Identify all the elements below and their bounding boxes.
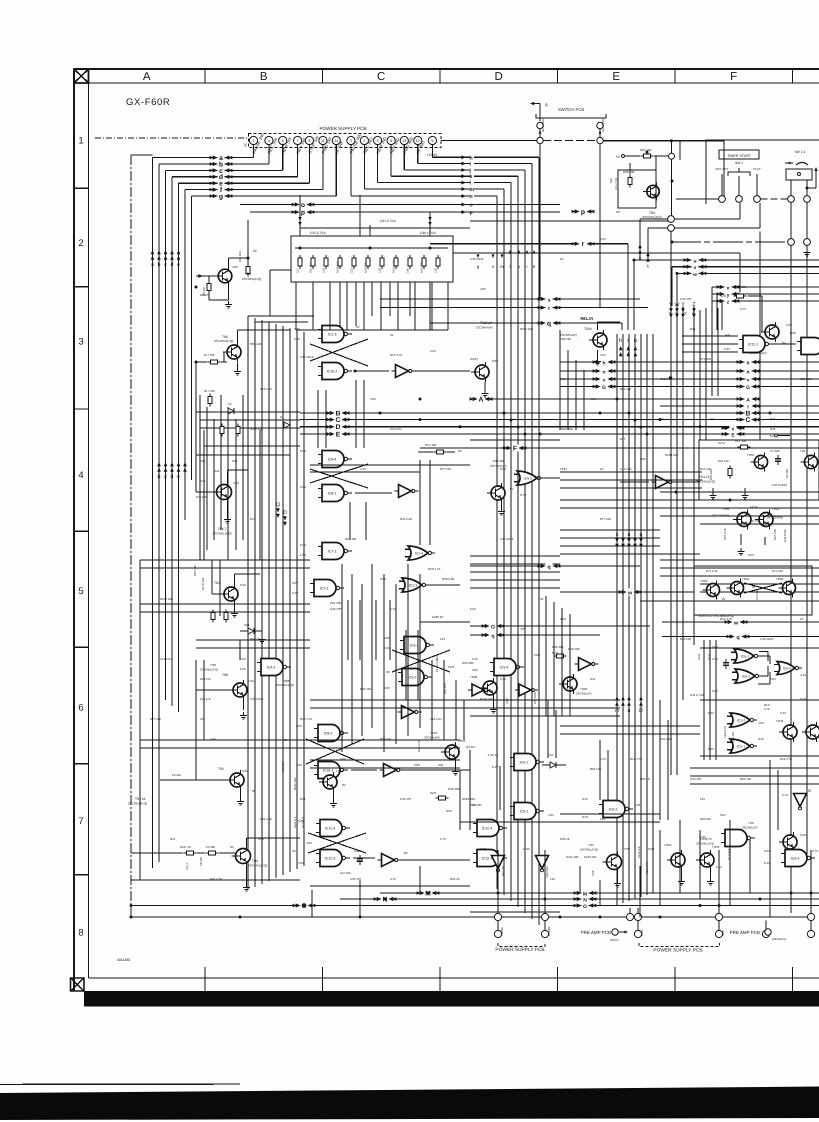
bundle D arrows k bbox=[518, 250, 521, 254]
svg-text:2SC945L(P,Q): 2SC945L(P,Q) bbox=[276, 683, 294, 687]
wire segment v35 bbox=[443, 660, 445, 740]
wire pin 5 drop bbox=[308, 144, 310, 183]
bottom connector stub 719 bbox=[718, 850, 720, 913]
wire bundle central vertical 4 bbox=[640, 334, 642, 897]
svg-text:4.6V: 4.6V bbox=[384, 686, 390, 690]
svg-text:C31 4.7/16: C31 4.7/16 bbox=[380, 219, 396, 223]
wire de vert 3 bbox=[569, 614, 571, 716]
svg-text:TR5: TR5 bbox=[588, 843, 594, 847]
wire segment h19 bbox=[660, 567, 819, 569]
ground ic65 bbox=[501, 503, 503, 508]
bundle D arrows l bbox=[509, 250, 512, 254]
bundle D arrows m bbox=[501, 254, 504, 258]
svg-text:R99 1K: R99 1K bbox=[640, 777, 650, 781]
svg-text:TR10: TR10 bbox=[430, 731, 438, 735]
grid tick top bbox=[792, 69, 794, 83]
svg-text:5.0V: 5.0V bbox=[560, 377, 566, 381]
net label q mid bbox=[538, 320, 561, 328]
svg-text:q: q bbox=[640, 532, 643, 538]
svg-text:4.8V: 4.8V bbox=[520, 627, 526, 631]
wire net i horizontal bbox=[418, 163, 470, 165]
wire net v bbox=[672, 266, 819, 268]
wire segment h15 bbox=[310, 707, 620, 709]
svg-text:C45 10/16: C45 10/16 bbox=[760, 637, 774, 641]
wire segment v4 bbox=[339, 282, 341, 326]
wire segment v40 bbox=[575, 360, 577, 430]
net label E right bbox=[722, 431, 745, 439]
svg-text:R46 10K: R46 10K bbox=[718, 459, 729, 463]
connector J pin 13 bbox=[400, 136, 408, 144]
wire bundle C vertical 8 bbox=[303, 332, 305, 866]
wire segment v44 bbox=[469, 750, 471, 830]
resistor R17 10K bbox=[208, 394, 212, 407]
svg-text:IC5-2: IC5-2 bbox=[609, 808, 618, 812]
svg-text:5V D: 5V D bbox=[718, 441, 726, 445]
svg-text:r: r bbox=[627, 338, 629, 344]
connector strip dashed box bbox=[248, 133, 440, 147]
junction 25 bbox=[810, 892, 813, 895]
svg-text:P8: P8 bbox=[616, 210, 620, 214]
wire segment v8 bbox=[409, 282, 411, 316]
or gate IC6-1 bbox=[731, 649, 761, 663]
svg-text:2SC945L(P,Q): 2SC945L(P,Q) bbox=[696, 842, 714, 846]
svg-text:v: v bbox=[747, 377, 750, 383]
svg-text:P3 22K: P3 22K bbox=[172, 773, 181, 777]
svg-text:C36 0.01(H): C36 0.01(H) bbox=[772, 483, 787, 487]
junction 21 bbox=[130, 916, 133, 919]
central bundle arrows mid bbox=[615, 532, 619, 548]
wire bundle E vertical 3 bbox=[693, 306, 695, 645]
sw2 stub left bbox=[790, 180, 792, 196]
svg-text:R56 10K: R56 10K bbox=[680, 637, 691, 641]
junction b10 bbox=[659, 916, 662, 919]
wire tr2b7 bbox=[160, 779, 230, 781]
wire net n left bbox=[560, 370, 597, 372]
junction b19 bbox=[729, 499, 732, 502]
svg-text:5VO: 5VO bbox=[448, 665, 455, 669]
wire a220 bbox=[420, 621, 470, 623]
svg-text:C33 47P: C33 47P bbox=[350, 877, 361, 881]
wire second loop vertical bbox=[139, 560, 141, 880]
wire row k to D bundle bbox=[474, 175, 518, 177]
wire right vertical 760 bbox=[759, 232, 761, 441]
wire segment v12 bbox=[355, 380, 357, 448]
or gate IC1-2 bbox=[727, 713, 757, 727]
filter element C36 bbox=[436, 255, 440, 269]
left bus up-arrows b bbox=[157, 462, 161, 480]
wire bundle E vertical 2 bbox=[682, 306, 684, 700]
Q arrow bus bbox=[276, 502, 280, 518]
net label M bbox=[417, 890, 440, 898]
buffer down tri 1 bbox=[468, 684, 491, 696]
svg-text:R64 10K: R64 10K bbox=[345, 537, 357, 541]
svg-text:IC9-2: IC9-2 bbox=[408, 676, 417, 680]
svg-text:5: 5 bbox=[78, 586, 83, 597]
left bus up-arrows f bbox=[183, 462, 187, 480]
junction 27 bbox=[671, 180, 674, 183]
wire segment v46 bbox=[547, 700, 549, 758]
wire br ladder 1 bbox=[690, 775, 819, 777]
svg-text:0.7V: 0.7V bbox=[390, 607, 396, 611]
svg-text:TR6,7: TR6,7 bbox=[218, 527, 227, 531]
svg-text:11.0V: 11.0V bbox=[522, 847, 530, 851]
resistor R25 10K bbox=[641, 154, 654, 158]
svg-text:z: z bbox=[692, 310, 694, 315]
svg-text:w: w bbox=[733, 620, 739, 626]
svg-text:3.4V: 3.4V bbox=[292, 591, 298, 595]
transistor TR55 bbox=[750, 452, 767, 471]
svg-text:D4: D4 bbox=[280, 415, 284, 419]
svg-text:G: G bbox=[746, 385, 750, 391]
wire segment v49 bbox=[607, 750, 609, 800]
wire mc 4 bbox=[560, 733, 700, 735]
transistor TR5b bbox=[603, 852, 622, 873]
svg-text:C: C bbox=[336, 417, 341, 424]
bottom connector stub REC bbox=[497, 850, 499, 913]
svg-text:R3 10K: R3 10K bbox=[785, 469, 789, 478]
wire filter bottom bbox=[270, 269, 291, 271]
net label y bbox=[717, 291, 740, 299]
border frame outer lines bbox=[74, 69, 819, 991]
svg-text:4.9V: 4.9V bbox=[298, 861, 304, 865]
wire left bus vertical g bbox=[191, 196, 193, 480]
wire TR4 base bbox=[196, 275, 214, 277]
wire segment v9 bbox=[429, 282, 431, 330]
transistor TR56 bbox=[733, 510, 751, 530]
svg-text:D14: D14 bbox=[250, 517, 256, 521]
wire net E bbox=[346, 433, 819, 435]
svg-text:(PB MUTE): (PB MUTE) bbox=[772, 937, 786, 941]
svg-text:6: 6 bbox=[282, 139, 284, 143]
wire ic6 outs bbox=[758, 655, 770, 657]
net label w bbox=[684, 270, 707, 278]
svg-text:9.4V: 9.4V bbox=[780, 711, 786, 715]
svg-text:C43 4.7/16: C43 4.7/16 bbox=[690, 693, 704, 697]
svg-text:D42: D42 bbox=[770, 427, 776, 431]
wire row j to D bundle bbox=[474, 169, 525, 171]
svg-text:A4? 10K: A4? 10K bbox=[340, 871, 351, 875]
nand gate IC10-2 bbox=[318, 363, 352, 380]
ground tr8 bbox=[240, 712, 247, 719]
diode D63 bbox=[248, 628, 254, 634]
left bus up-arrows e bbox=[177, 462, 181, 480]
svg-text:R31 2.2K: R31 2.2K bbox=[660, 737, 672, 741]
net arrow k bbox=[461, 174, 466, 178]
wire br ladder 0 bbox=[690, 767, 819, 769]
wire bundle E vertical 1 bbox=[676, 306, 678, 775]
filter network box bbox=[291, 236, 453, 282]
timer contact stub mid bbox=[738, 176, 740, 196]
wire d5 h 0 bbox=[470, 571, 560, 573]
wire tr3 base feed bbox=[131, 852, 183, 854]
svg-text:0V: 0V bbox=[230, 845, 234, 849]
svg-text:(3.9V: (3.9V bbox=[800, 833, 807, 837]
wire switch pcb verticals bbox=[539, 129, 541, 138]
buffer down tri 2 bbox=[515, 684, 538, 696]
bottom connector stub PLAY bbox=[637, 908, 639, 913]
svg-text:5.0V: 5.0V bbox=[470, 607, 476, 611]
ground tr28 bbox=[493, 698, 495, 706]
wire r54 bbox=[418, 451, 433, 453]
junction 9 bbox=[524, 433, 527, 436]
svg-text:3.8V: 3.8V bbox=[356, 859, 362, 863]
wire bundle D vertical n bbox=[496, 196, 498, 889]
net label A bbox=[470, 396, 493, 404]
connector J pin 3 bbox=[347, 136, 355, 144]
gate partial right bottom bbox=[721, 830, 755, 847]
svg-text:u: u bbox=[628, 708, 631, 714]
nand gate IC8-1 bbox=[318, 485, 352, 502]
svg-text:0V: 0V bbox=[472, 803, 476, 807]
transistor TR6 bbox=[223, 342, 241, 362]
wire bundle C vertical 5 bbox=[282, 326, 284, 875]
connector J pin 6 bbox=[279, 136, 287, 144]
wire row n to D bundle bbox=[474, 195, 497, 197]
wire segment h22 bbox=[700, 591, 819, 593]
wire net n right bbox=[610, 370, 819, 372]
ground tr5 bbox=[617, 872, 619, 880]
svg-text:PRE AMP PCB: PRE AMP PCB bbox=[730, 930, 760, 935]
ic6 cluster h 1 bbox=[700, 699, 819, 701]
wire ml vert 3 bbox=[220, 395, 222, 530]
net label s bbox=[538, 296, 561, 304]
wire ml vert 6 bbox=[242, 395, 244, 540]
svg-text:4: 4 bbox=[78, 470, 83, 481]
filter feed chevrons bbox=[298, 222, 301, 226]
wire timer row left2 bbox=[470, 220, 668, 222]
svg-text:R38 10K: R38 10K bbox=[493, 459, 505, 463]
wire segment v2 bbox=[247, 220, 249, 255]
svg-text:C33 47P: C33 47P bbox=[330, 607, 341, 611]
svg-text:1: 1 bbox=[78, 135, 83, 146]
filter drop 0 bbox=[295, 282, 297, 330]
svg-text:IC10-2: IC10-2 bbox=[327, 370, 338, 374]
svg-text:2SC945L(P,Q): 2SC945L(P,Q) bbox=[248, 864, 267, 868]
resistor R48b bbox=[436, 796, 449, 800]
wire ecol h 2 bbox=[560, 487, 702, 489]
wire segment v10 bbox=[317, 390, 319, 448]
wire trA emitter bbox=[484, 382, 486, 390]
transistor TR53 bbox=[696, 850, 714, 870]
junction b7 bbox=[769, 412, 772, 415]
ground TR4 bbox=[225, 301, 232, 308]
timer contact stub rec bbox=[721, 174, 723, 196]
svg-text:R222 470: R222 470 bbox=[294, 816, 297, 828]
filter element R102 2.2M bbox=[394, 255, 398, 269]
wire r3r v 1 bbox=[711, 308, 713, 396]
net label b bbox=[210, 161, 233, 169]
wire net f horizontal bbox=[185, 189, 323, 191]
switch pcb pin 1 upper bbox=[537, 122, 543, 128]
or gate IC1-3b bbox=[399, 578, 429, 592]
wire segment v34 bbox=[431, 660, 433, 740]
wire TR26 emitter bbox=[597, 350, 599, 358]
svg-text:TR18: TR18 bbox=[700, 579, 708, 583]
resistor R96m bbox=[554, 654, 567, 658]
junction 6 bbox=[503, 412, 506, 415]
junction b5 bbox=[659, 418, 662, 421]
connector J pin 12 bbox=[414, 136, 422, 144]
grid tick bottom bbox=[557, 967, 559, 991]
svg-text:POWER SUPPLY PCB: POWER SUPPLY PCB bbox=[319, 126, 366, 131]
svg-text:6.3V: 6.3V bbox=[724, 347, 730, 351]
wire right vertical 807 bbox=[806, 253, 808, 860]
wire switch row to timer bbox=[603, 140, 724, 142]
svg-text:m: m bbox=[615, 708, 619, 714]
net label v bbox=[684, 263, 707, 271]
transistor TR26 bbox=[589, 330, 607, 350]
svg-text:IC11-4: IC11-4 bbox=[325, 827, 336, 831]
wire segment h4 bbox=[200, 419, 300, 421]
svg-text:x: x bbox=[727, 285, 730, 291]
wire segment h20 bbox=[660, 575, 819, 577]
timer lower terminal a bbox=[788, 239, 795, 246]
junction 18 bbox=[384, 898, 387, 901]
svg-text:D63: D63 bbox=[244, 623, 250, 627]
central bundle labels top bbox=[619, 346, 623, 350]
diode D4b bbox=[284, 422, 290, 428]
sw2 switch body bbox=[786, 169, 812, 180]
bottom connector circle PLAY bbox=[634, 913, 641, 920]
transistor TR13 bbox=[800, 452, 817, 471]
diode D4 ml bbox=[228, 408, 234, 414]
svg-text:R54 10K: R54 10K bbox=[425, 443, 437, 447]
svg-text:5.4V: 5.4V bbox=[708, 711, 714, 715]
svg-text:TR53: TR53 bbox=[712, 845, 720, 849]
svg-text:IC5-1: IC5-1 bbox=[520, 810, 529, 814]
wire stub pair left bbox=[640, 218, 668, 220]
wire bundle C vertical 3 bbox=[268, 322, 270, 881]
sw2 terminal b bbox=[804, 196, 811, 203]
wire segment v19 bbox=[429, 460, 431, 545]
wire segment v21 bbox=[203, 430, 205, 560]
ground TR6 bbox=[237, 363, 239, 369]
wire ecol h 1 bbox=[560, 479, 702, 481]
svg-text:4.8V: 4.8V bbox=[590, 397, 596, 401]
svg-text:IC1-3: IC1-3 bbox=[409, 583, 417, 587]
wire net D bbox=[346, 426, 819, 428]
svg-text:0.5V: 0.5V bbox=[446, 809, 452, 813]
svg-text:R48 10K: R48 10K bbox=[448, 787, 460, 791]
wire rh 0 bbox=[660, 491, 819, 493]
svg-text:3.4V: 3.4V bbox=[708, 747, 714, 751]
svg-text:0V: 0V bbox=[800, 617, 804, 621]
svg-text:R8 47K: R8 47K bbox=[200, 293, 209, 297]
net label p bbox=[292, 209, 315, 217]
net label h right2 bbox=[737, 359, 760, 367]
nand gate IC5-1 (lower) bbox=[510, 803, 544, 820]
svg-text:R31 2.2K: R31 2.2K bbox=[400, 517, 412, 521]
wire rh 5 bbox=[560, 545, 660, 547]
wire net G right bbox=[610, 386, 819, 388]
wire ml vert 5 bbox=[235, 419, 237, 550]
wire segment h7 bbox=[310, 471, 420, 473]
sw2 terminal a bbox=[788, 196, 795, 203]
svg-text:12V: 12V bbox=[700, 797, 705, 801]
wire pin 7 drop bbox=[335, 144, 337, 196]
D arrow bus bbox=[283, 510, 287, 526]
ic6 wiring to ic6-4 bbox=[759, 651, 768, 653]
svg-text:h: h bbox=[470, 155, 473, 161]
svg-text:3: 3 bbox=[78, 337, 83, 348]
switch pcb bracket bbox=[536, 114, 606, 118]
ground tr2b5 bbox=[234, 604, 236, 610]
wire net q2 bbox=[470, 634, 486, 636]
grid tick bottom bbox=[674, 967, 676, 991]
svg-text:y: y bbox=[727, 292, 730, 298]
svg-text:R70 10K: R70 10K bbox=[732, 732, 735, 742]
transistor TR3 bbox=[232, 846, 251, 867]
pre amp circle right bbox=[765, 929, 771, 935]
wire pin drop for i bbox=[417, 144, 419, 164]
svg-text:C45 10/16: C45 10/16 bbox=[300, 355, 314, 359]
svg-text:0.4V: 0.4V bbox=[582, 797, 588, 801]
svg-text:IC11-4: IC11-4 bbox=[482, 827, 493, 831]
junction 24 bbox=[718, 904, 721, 907]
svg-text:0V: 0V bbox=[390, 333, 394, 337]
svg-text:R42: R42 bbox=[200, 459, 206, 463]
svg-text:R77 100: R77 100 bbox=[440, 467, 451, 471]
svg-text:2SC945L(P,Q): 2SC945L(P,Q) bbox=[212, 532, 231, 536]
ground tr3 bbox=[246, 866, 248, 884]
svg-text:4.0V: 4.0V bbox=[306, 841, 312, 845]
net label G mid bbox=[593, 383, 616, 391]
svg-text:TR4: TR4 bbox=[245, 272, 251, 276]
bottom lower stub 811 bbox=[810, 921, 812, 931]
svg-text:R101 82K: R101 82K bbox=[421, 261, 424, 273]
wire bundle D vertical h bbox=[538, 157, 540, 925]
svg-text:R57 2.2K: R57 2.2K bbox=[723, 528, 727, 540]
wire segment v26 bbox=[195, 660, 197, 780]
wire tr3 collector bbox=[246, 838, 248, 846]
svg-text:5.0V: 5.0V bbox=[240, 583, 246, 587]
svg-text:A: A bbox=[746, 397, 750, 403]
filter box drops bus bbox=[296, 329, 448, 331]
wire bundle D vertical i bbox=[531, 164, 533, 920]
filter element C40 bbox=[408, 255, 412, 269]
wire row h to D bundle bbox=[474, 156, 539, 158]
junction 14 bbox=[646, 151, 649, 154]
svg-text:R31 2.2K: R31 2.2K bbox=[210, 877, 222, 881]
svg-text:R12 4.7K: R12 4.7K bbox=[720, 617, 732, 621]
junction b17 bbox=[646, 433, 649, 436]
svg-text:BRAKE: BRAKE bbox=[547, 926, 551, 936]
svg-text:m: m bbox=[470, 187, 475, 193]
timer lower terminal b bbox=[804, 239, 811, 246]
wire TR6 base bbox=[196, 361, 207, 363]
svg-text:R12 4.7K: R12 4.7K bbox=[630, 757, 642, 761]
svg-text:5VO: 5VO bbox=[648, 847, 655, 851]
wire switch pcb row bbox=[543, 140, 597, 142]
transistor TR27 bbox=[761, 322, 779, 342]
svg-text:C25 4.7/16: C25 4.7/16 bbox=[310, 231, 326, 235]
bottom connector lower circle 766 bbox=[762, 930, 769, 937]
svg-text:SW 1: SW 1 bbox=[735, 161, 743, 165]
filter element C33 bbox=[352, 255, 356, 269]
svg-text:TR25,24: TR25,24 bbox=[480, 321, 492, 325]
ground tr5253 bbox=[681, 870, 683, 878]
svg-text:2SC945L(P,Q): 2SC945L(P,Q) bbox=[580, 848, 598, 852]
wire cd vert 5 bbox=[395, 584, 397, 744]
ground tr54 bbox=[333, 792, 335, 800]
wire r3r v 0 bbox=[705, 308, 707, 396]
wire net g horizontal bbox=[192, 195, 337, 197]
timer contact stub play bbox=[756, 174, 758, 196]
ground d63 bbox=[261, 631, 263, 636]
sw2 arrow symbol bbox=[785, 163, 808, 166]
wire de vert 1 bbox=[553, 602, 555, 716]
wire rh 2 bbox=[700, 507, 819, 509]
